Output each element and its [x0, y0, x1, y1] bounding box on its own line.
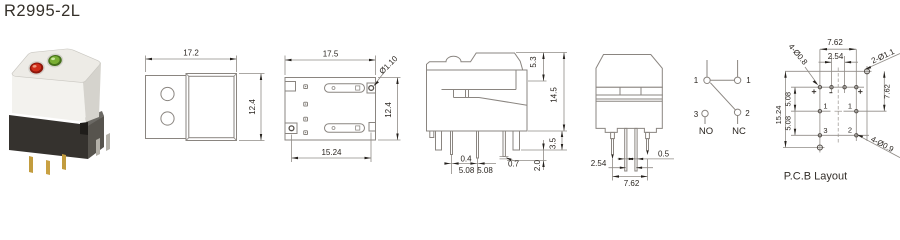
- front view body: [596, 95, 662, 132]
- svg-text:12.4: 12.4: [384, 102, 393, 118]
- front view pin mid 1: [625, 128, 627, 171]
- top view cap inner: [189, 76, 234, 137]
- svg-text:Ø1.10: Ø1.10: [378, 54, 400, 76]
- svg-text:5.08: 5.08: [784, 92, 793, 107]
- bottom view outline: [285, 78, 376, 141]
- pin silver right 2: [106, 133, 110, 151]
- front view cap: [596, 55, 662, 88]
- side view pin C: [503, 131, 505, 157]
- pin gold 1: [29, 156, 33, 173]
- pcb hole row1 c1: [818, 86, 821, 89]
- dimension diameter 1.10: [373, 54, 399, 86]
- pcb minus mark: [829, 92, 832, 94]
- bottom view mount hole bottom-left: [289, 126, 294, 131]
- svg-text:4-Ø0.8: 4-Ø0.8: [787, 42, 810, 67]
- svg-text:7.62: 7.62: [883, 84, 892, 99]
- bottom view led pad 3: [304, 117, 308, 121]
- led green bezel: [46, 52, 65, 68]
- cap front face: [12, 74, 86, 123]
- svg-text:5.08: 5.08: [477, 166, 493, 175]
- bottom view mount hole square top-right: [367, 83, 376, 93]
- top view cap outer: [186, 74, 237, 141]
- top view left box: [146, 76, 187, 139]
- led red: [29, 61, 44, 74]
- schematic contact 3 lead: [704, 117, 706, 124]
- svg-text:3.5: 3.5: [549, 137, 558, 149]
- bottom view slot 2: [325, 124, 365, 133]
- side view body: [427, 70, 528, 131]
- dimension 0.5 front view: [618, 150, 675, 161]
- schematic moving contact: [710, 83, 735, 110]
- dimension 12.4 top view: [239, 74, 265, 141]
- pcb plus mark left: [812, 89, 816, 93]
- dimension 14.5: [528, 53, 567, 132]
- dimension 7.62 pcb top: [820, 38, 856, 50]
- svg-text:0.7: 0.7: [508, 160, 520, 169]
- svg-text:1: 1: [848, 102, 852, 111]
- pcb plus mark right: [858, 89, 862, 93]
- body top behind cap: [84, 111, 104, 126]
- pcb center line dashed: [837, 68, 839, 145]
- svg-text:17.5: 17.5: [323, 50, 339, 59]
- svg-text:2: 2: [848, 126, 852, 135]
- side view cap: [427, 53, 523, 70]
- side view body slot lines: [442, 70, 528, 105]
- front view: [596, 55, 662, 172]
- cap top face: [12, 49, 100, 82]
- svg-text:15.24: 15.24: [774, 106, 783, 125]
- svg-text:4-Ø0.9: 4-Ø0.9: [869, 135, 895, 155]
- pcb hole row1 c2: [830, 86, 833, 89]
- schematic common bar: [710, 79, 734, 81]
- dimension 2.54 pcb: [819, 52, 859, 63]
- led green: [47, 54, 62, 67]
- bottom view led pad 2: [304, 102, 308, 106]
- svg-text:0.5: 0.5: [658, 150, 670, 159]
- schematic contact 2: [734, 109, 740, 115]
- svg-text:0.4: 0.4: [460, 155, 472, 164]
- pcb hole row2 c4: [855, 110, 858, 113]
- bottom view mount hole top-right: [369, 86, 374, 91]
- side view left stub: [430, 131, 434, 138]
- svg-text:1: 1: [746, 76, 751, 85]
- pcb hole row1 c3: [843, 86, 846, 89]
- svg-text:5.3: 5.3: [529, 56, 538, 68]
- schematic: [694, 60, 752, 137]
- svg-text:NO: NO: [699, 126, 713, 137]
- schematic contact 2 lead: [737, 116, 739, 125]
- bottom view led pad 4: [304, 131, 308, 135]
- dimension 15.24 bottom view: [292, 133, 372, 163]
- svg-text:14.5: 14.5: [550, 87, 559, 103]
- svg-text:1: 1: [694, 76, 699, 85]
- dimension 5.3: [516, 53, 567, 82]
- svg-text:5.08: 5.08: [459, 166, 475, 175]
- top view cap corner chamfers: [186, 74, 237, 141]
- dimension 15.24 pcb: [774, 71, 787, 147]
- side view support peg left: [436, 131, 442, 150]
- svg-text:2.54: 2.54: [591, 159, 607, 168]
- pin gold 3: [62, 154, 66, 170]
- led red bezel: [27, 60, 46, 76]
- body right face: [88, 116, 104, 159]
- dimension 3.5: [521, 131, 567, 150]
- svg-text:3: 3: [823, 126, 827, 135]
- side view support peg right: [513, 131, 520, 150]
- svg-text:P.C.B Layout: P.C.B Layout: [784, 171, 847, 183]
- dimension 7.62 pcb right: [883, 71, 892, 111]
- dimension 4-diameter0.9: [857, 135, 900, 158]
- dimension 5.08 lower pcb: [784, 111, 797, 135]
- dimension 7.62 front view: [613, 159, 648, 188]
- dimension 17.5: [285, 50, 376, 76]
- dimension 2.0: [507, 140, 547, 171]
- svg-text:7.62: 7.62: [827, 38, 843, 47]
- svg-text:1: 1: [823, 102, 827, 111]
- schematic pole 1 right lead: [737, 60, 739, 77]
- dimension 17.2: [146, 49, 237, 73]
- pcb hole row3 c4: [855, 134, 858, 137]
- dimension 12.4 bottom view: [378, 78, 401, 141]
- schematic pole 1 right contact: [734, 77, 740, 83]
- pcb grid vertical lines: [820, 49, 867, 152]
- dimension 0.7: [500, 156, 520, 168]
- dimension 2-diameter1.1: [865, 47, 900, 70]
- pcb mount hole bottom-left: [817, 145, 822, 150]
- svg-text:7.62: 7.62: [624, 179, 640, 188]
- dimension 4-diameter0.8: [787, 42, 819, 85]
- dimension 0.4 and 5.08 5.08 side view: [444, 155, 496, 176]
- pcb hole row1 c4: [855, 86, 858, 89]
- bottom view slot 1: [325, 84, 365, 93]
- svg-text:3: 3: [694, 110, 699, 119]
- bottom view led pad 1: [304, 85, 308, 89]
- side view: [427, 53, 528, 158]
- body front face: [9, 115, 88, 159]
- pcb center cross dash: [835, 110, 843, 112]
- svg-text:NC: NC: [732, 126, 746, 137]
- side view pin A: [451, 131, 453, 155]
- front view pin left outer: [611, 132, 615, 138]
- bottom view notch top-left: [285, 82, 296, 92]
- schematic pole 1 left lead: [706, 60, 708, 77]
- body notch: [80, 122, 88, 135]
- bottom view mount hole square bottom-left: [285, 123, 297, 134]
- top view: [146, 74, 237, 141]
- pin gold 2: [46, 160, 50, 175]
- pin silver right 1: [96, 138, 100, 156]
- bottom view notch bottom-right: [369, 123, 376, 132]
- top view hole circle 1: [161, 87, 174, 100]
- front view pin right outer: [646, 132, 650, 138]
- pcb mount hole top-right: [865, 69, 870, 74]
- pcb layout: [783, 49, 887, 152]
- front view pin mid 2: [635, 128, 637, 171]
- svg-text:2.0: 2.0: [533, 159, 542, 171]
- svg-text:5.08: 5.08: [784, 116, 793, 131]
- pcb grid horizontal lines: [783, 71, 887, 147]
- pcb hole row2 c1: [818, 110, 821, 113]
- svg-text:R2995-2L: R2995-2L: [4, 2, 80, 20]
- front view band: [596, 87, 662, 95]
- top view hole circle 2: [161, 112, 174, 125]
- svg-text:2-Ø1.1: 2-Ø1.1: [870, 47, 896, 66]
- svg-text:17.2: 17.2: [183, 49, 199, 58]
- dimension 5.08 upper pcb: [784, 87, 797, 111]
- svg-text:2.54: 2.54: [828, 52, 844, 61]
- schematic contact 3: [702, 110, 708, 116]
- schematic pole 1 left contact: [704, 77, 710, 83]
- svg-text:12.4: 12.4: [248, 99, 257, 115]
- bottom view: [285, 78, 376, 141]
- side view pin B: [477, 131, 479, 158]
- dimension 2.54: [591, 159, 653, 169]
- pcb hole row3 c1: [818, 134, 821, 137]
- svg-text:15.24: 15.24: [321, 148, 342, 157]
- cap right face: [83, 62, 101, 122]
- product photo: [9, 49, 110, 175]
- svg-text:2: 2: [745, 109, 750, 118]
